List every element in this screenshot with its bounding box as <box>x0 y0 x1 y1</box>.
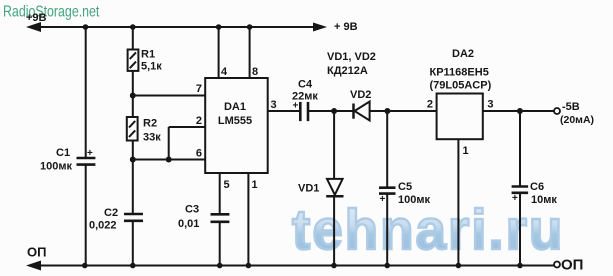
svg-text:+9В: +9В <box>26 12 47 24</box>
svg-text:VD2: VD2 <box>350 89 371 101</box>
svg-text:10мк: 10мк <box>531 194 557 206</box>
svg-text:ОП: ОП <box>561 257 583 274</box>
svg-text:4: 4 <box>221 66 228 78</box>
svg-text:33к: 33к <box>143 132 161 144</box>
svg-text:R2: R2 <box>143 118 157 130</box>
svg-text:R1: R1 <box>141 49 155 61</box>
svg-text:ОП: ОП <box>27 245 46 260</box>
svg-text:LM555: LM555 <box>218 115 252 127</box>
svg-text:2: 2 <box>427 99 433 111</box>
svg-text:КР1168ЕН5: КР1168ЕН5 <box>430 67 489 79</box>
svg-text:3: 3 <box>271 99 277 111</box>
svg-text:VD1: VD1 <box>298 183 319 195</box>
svg-text:tehnari.ru: tehnari.ru <box>292 197 564 261</box>
svg-text:1: 1 <box>463 145 469 157</box>
svg-text:(20мА): (20мА) <box>560 114 594 126</box>
svg-text:+: + <box>380 194 386 205</box>
svg-text:C4: C4 <box>298 79 313 91</box>
svg-text:DA2: DA2 <box>452 48 474 60</box>
svg-text:C3: C3 <box>185 204 199 216</box>
svg-text:100мк: 100мк <box>398 194 430 206</box>
svg-text:5: 5 <box>224 179 230 191</box>
svg-text:0,022: 0,022 <box>89 220 117 232</box>
svg-text:КД212А: КД212А <box>327 65 368 77</box>
svg-text:+: + <box>87 148 93 159</box>
svg-text:C6: C6 <box>530 181 544 193</box>
svg-text:C5: C5 <box>398 181 412 193</box>
svg-text:-5В: -5В <box>562 101 580 113</box>
svg-text:+: + <box>512 193 518 204</box>
svg-text:+ 9В: + 9В <box>334 21 358 33</box>
svg-text:5,1к: 5,1к <box>141 61 162 73</box>
svg-text:VD1, VD2: VD1, VD2 <box>327 51 376 63</box>
svg-text:C2: C2 <box>104 207 118 219</box>
svg-text:8: 8 <box>252 66 258 78</box>
svg-text:C1: C1 <box>56 147 70 159</box>
svg-text:DA1: DA1 <box>224 101 246 113</box>
svg-text:100мк: 100мк <box>40 161 72 173</box>
svg-text:RadioStorage.net: RadioStorage.net <box>3 2 99 20</box>
svg-text:3: 3 <box>487 99 493 111</box>
svg-text:2: 2 <box>196 115 202 127</box>
svg-text:0,01: 0,01 <box>178 218 199 230</box>
svg-text:(79L05ACP): (79L05ACP) <box>430 80 492 92</box>
svg-text:7: 7 <box>196 83 202 95</box>
svg-text:+: + <box>293 101 299 112</box>
svg-text:1: 1 <box>252 179 258 191</box>
svg-text:6: 6 <box>196 148 202 160</box>
